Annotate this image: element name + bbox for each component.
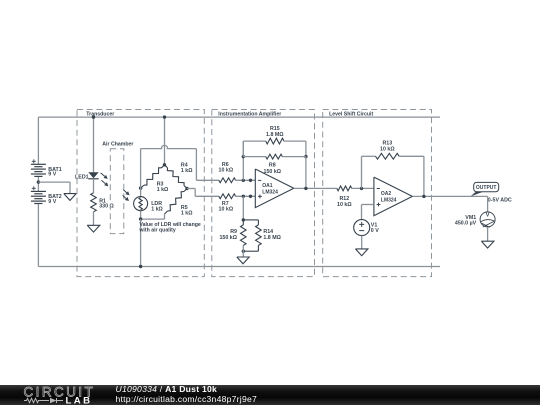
op-amp OA2	[374, 177, 413, 216]
wire feedback left vertical	[242, 141, 244, 180]
label 0-5V ADC	[488, 197, 512, 203]
svg-text:1 kΩ: 1 kΩ	[181, 168, 193, 174]
annotation box Instrumentation Amplifier	[212, 110, 315, 277]
svg-text:1 kΩ: 1 kΩ	[157, 187, 169, 193]
label BAT1 9 V	[48, 167, 61, 178]
wire OA2 plus input	[362, 205, 374, 220]
node top rail / bridge branch	[163, 115, 166, 118]
wire voltmeter to ground	[487, 227, 489, 241]
LED LED1	[88, 172, 108, 186]
wire left rail (battery branch)	[37, 117, 39, 266]
ground G2 (below R1)	[87, 225, 100, 232]
voltage source V1	[354, 220, 370, 236]
label R4 1k	[181, 163, 193, 175]
label R6 10k	[219, 162, 234, 174]
svg-text:150 kΩ: 150 kΩ	[219, 235, 237, 241]
label Instrumentation Amplifier	[218, 111, 281, 117]
label R3 1k	[157, 182, 169, 194]
wire R1 to ground	[93, 212, 95, 226]
label Level Shift Circuit	[329, 111, 373, 117]
node R9/R14 top	[242, 218, 245, 221]
node bridge right	[185, 187, 188, 190]
svg-text:Transducer: Transducer	[86, 111, 114, 117]
node OA1 minus pin	[249, 179, 252, 182]
wire feedback up	[362, 156, 376, 188]
node top rail / LED branch	[92, 115, 95, 118]
svg-text:450.0 µV: 450.0 µV	[455, 221, 477, 227]
wire bridge right output	[187, 189, 219, 197]
node feedback junction on minus input	[242, 179, 245, 182]
resistor R6	[219, 178, 236, 183]
wire R8 left lead	[243, 141, 265, 157]
wire OA1 output	[294, 187, 323, 189]
resistor R7	[219, 194, 236, 199]
svg-text:1.8 MΩ: 1.8 MΩ	[266, 132, 284, 138]
wire R7 to OA1 plus input	[236, 195, 256, 197]
op-amp OA1	[255, 169, 293, 208]
label V1 0V	[371, 223, 379, 234]
label R1 330	[99, 198, 114, 209]
svg-text:10 kΩ: 10 kΩ	[219, 168, 234, 174]
flag box OUTPUT	[474, 182, 499, 191]
resistor R8	[266, 154, 283, 159]
svg-text:9 V: 9 V	[48, 199, 56, 205]
wire battery midpoint to ground	[38, 182, 70, 194]
svg-text:V: V	[486, 213, 490, 219]
node OA1 plus pin	[249, 195, 252, 198]
label R12 10k	[337, 196, 352, 208]
resistor R3	[141, 165, 165, 188]
CircuitLab logo	[0, 385, 110, 406]
svg-text:9 V: 9 V	[48, 172, 56, 178]
node OA1 output / feedback	[304, 187, 307, 190]
node bottom rail / bridge	[139, 265, 142, 268]
svg-text:OA2: OA2	[381, 191, 392, 197]
label R7 10k	[219, 201, 234, 213]
svg-text:LAB: LAB	[66, 395, 93, 405]
wire bridge left output (hops over bridge feed)	[141, 145, 219, 188]
light arrows into LDR	[123, 190, 130, 201]
svg-text:10 kΩ: 10 kΩ	[337, 202, 352, 208]
battery BAT2	[31, 186, 46, 203]
svg-text:10 kΩ: 10 kΩ	[380, 146, 395, 152]
resistor R9	[241, 220, 247, 246]
label R15 1.8M	[266, 126, 284, 138]
svg-text:1 kΩ: 1 kΩ	[181, 211, 193, 217]
svg-text:OA1: OA1	[262, 183, 273, 189]
wire OA2 output	[412, 195, 487, 197]
node R8 left junction	[242, 155, 245, 158]
svg-text:R8: R8	[269, 162, 276, 168]
wire R8 right lead	[282, 157, 306, 189]
node bridge left	[139, 186, 142, 189]
svg-text:LED1: LED1	[75, 174, 89, 180]
wire plus input down	[242, 196, 244, 220]
resistor R13	[376, 153, 400, 159]
svg-text:R9: R9	[230, 229, 237, 235]
resistor R4	[165, 165, 188, 189]
label R14 1.8M	[263, 229, 281, 241]
node battery midpoint	[37, 180, 40, 183]
svg-text:330 Ω: 330 Ω	[99, 204, 114, 210]
svg-text:with air quality: with air quality	[138, 228, 175, 234]
label R13 10k	[380, 140, 395, 152]
svg-text:Instrumentation Amplifier: Instrumentation Amplifier	[218, 111, 281, 117]
wire LED to R1	[93, 179, 95, 193]
wire bottom supply rail	[38, 266, 440, 268]
label LDR 1k	[151, 201, 163, 213]
node bridge top	[163, 163, 166, 166]
node R9/R14 bottom	[242, 250, 245, 253]
svg-text:10 kΩ: 10 kΩ	[219, 206, 234, 212]
svg-text:0 V: 0 V	[371, 228, 379, 234]
label Transducer	[86, 111, 114, 117]
node R9 junction on plus input	[242, 195, 245, 198]
voltmeter VM1	[480, 212, 495, 227]
node bridge bottom	[139, 217, 142, 220]
wire output to voltmeter	[487, 196, 489, 212]
label VM1 450.0uV	[455, 215, 477, 227]
ground G5 (below VM1)	[481, 241, 494, 248]
wire top rail to bridge	[164, 117, 166, 165]
resistor R5	[165, 189, 188, 215]
ground G3 (below R9/R14)	[237, 257, 249, 264]
wire R15 right lead	[284, 141, 306, 157]
svg-text:1 kΩ: 1 kΩ	[151, 206, 163, 212]
svg-text:0-5V ADC: 0-5V ADC	[488, 197, 512, 203]
svg-text:Air Chamber: Air Chamber	[102, 142, 133, 148]
resistor R12	[337, 186, 352, 191]
label Air Chamber	[102, 142, 133, 148]
wire into R12	[323, 187, 337, 189]
label LED1	[75, 174, 89, 180]
svg-text:R14: R14	[263, 229, 273, 235]
svg-text:R13: R13	[382, 140, 392, 146]
wire R9 bottom to ground	[242, 245, 244, 257]
wire bridge bottom	[141, 211, 165, 220]
node R8 right junction	[304, 155, 307, 158]
wire R13 to output	[399, 156, 424, 196]
label R9 150k	[219, 229, 237, 241]
resistor R15	[266, 138, 284, 144]
label OA1 LM324	[262, 183, 278, 196]
label BAT2 9 V	[48, 194, 61, 205]
wire R12 to OA2 minus	[352, 187, 374, 189]
svg-text:R15: R15	[270, 126, 280, 132]
wire R6 to OA1 minus input	[236, 179, 256, 181]
annotation box Air Chamber	[110, 149, 124, 234]
wire V1 to ground	[361, 236, 363, 249]
svg-text:LM324: LM324	[381, 197, 397, 203]
battery BAT1	[31, 159, 46, 176]
photoresistor LDR	[134, 197, 148, 211]
node OA2 output / feedback	[422, 195, 425, 198]
ground G4 (below V1)	[355, 249, 368, 256]
wire top supply rail	[38, 116, 440, 118]
wire bridge bottom to bottom rail	[140, 219, 142, 266]
resistor R1	[91, 193, 97, 212]
label R5 1k	[181, 205, 193, 217]
node R12/feedback junction	[360, 187, 363, 190]
annotation box Transducer	[77, 110, 204, 277]
resistor R14	[243, 220, 261, 251]
annotation box Level Shift Circuit	[323, 110, 432, 277]
wire bridge left node to LDR	[140, 188, 142, 197]
ground G1 (battery midpoint)	[64, 194, 76, 201]
svg-text:Level Shift Circuit: Level Shift Circuit	[329, 111, 373, 117]
svg-text:OUTPUT: OUTPUT	[476, 185, 497, 191]
svg-text:LM324: LM324	[262, 189, 278, 195]
wire top rail to LED	[93, 117, 95, 172]
label OA2 LM324	[381, 191, 397, 204]
flag wedge OUTPUT	[471, 192, 484, 197]
label R8 150k	[264, 162, 282, 174]
wire R15 left lead	[243, 140, 265, 142]
svg-text:1.8 MΩ: 1.8 MΩ	[263, 235, 281, 241]
label LDR note	[138, 222, 201, 234]
